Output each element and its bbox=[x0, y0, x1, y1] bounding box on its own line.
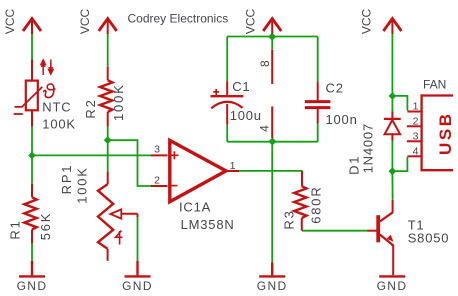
svg-text:R1: R1 bbox=[8, 219, 23, 239]
svg-text:100K: 100K bbox=[75, 166, 90, 204]
svg-text:R3: R3 bbox=[282, 209, 297, 229]
svg-text:R2: R2 bbox=[83, 98, 98, 118]
svg-text:1: 1 bbox=[413, 101, 420, 113]
svg-text:8: 8 bbox=[258, 59, 272, 66]
svg-text:4: 4 bbox=[413, 145, 420, 157]
svg-text:RP1: RP1 bbox=[59, 164, 74, 195]
svg-text:Codrey Electronics: Codrey Electronics bbox=[128, 12, 229, 26]
svg-text:VCC: VCC bbox=[3, 9, 17, 35]
svg-text:680R: 680R bbox=[309, 185, 324, 223]
svg-text:VCC: VCC bbox=[244, 9, 258, 35]
svg-text:1N4007: 1N4007 bbox=[361, 123, 376, 173]
svg-text:4: 4 bbox=[258, 124, 272, 131]
svg-text:USB: USB bbox=[436, 111, 455, 155]
svg-text:C1: C1 bbox=[232, 79, 250, 94]
svg-text:100u: 100u bbox=[230, 108, 262, 123]
svg-text:FAN: FAN bbox=[423, 78, 446, 92]
svg-text:100n: 100n bbox=[326, 112, 358, 127]
svg-text:IC1A: IC1A bbox=[179, 200, 211, 215]
svg-text:D1: D1 bbox=[346, 155, 361, 175]
svg-text:3: 3 bbox=[154, 144, 161, 156]
svg-text:GND: GND bbox=[122, 279, 153, 293]
svg-text:VCC: VCC bbox=[78, 9, 92, 35]
svg-text:VCC: VCC bbox=[360, 9, 374, 35]
svg-text:2: 2 bbox=[154, 174, 161, 186]
svg-text:GND: GND bbox=[257, 279, 288, 293]
svg-text:100K: 100K bbox=[111, 83, 126, 121]
svg-text:1: 1 bbox=[230, 160, 237, 172]
svg-text:100K: 100K bbox=[42, 117, 76, 132]
svg-text:NTC: NTC bbox=[42, 100, 71, 115]
svg-text:3: 3 bbox=[413, 130, 420, 142]
svg-text:GND: GND bbox=[17, 279, 48, 293]
svg-text:GND: GND bbox=[377, 279, 408, 293]
svg-text:LM358N: LM358N bbox=[181, 217, 235, 232]
svg-text:S8050: S8050 bbox=[408, 231, 450, 246]
svg-text:56K: 56K bbox=[38, 212, 53, 241]
svg-text:2: 2 bbox=[413, 115, 420, 127]
svg-text:C2: C2 bbox=[326, 80, 344, 95]
